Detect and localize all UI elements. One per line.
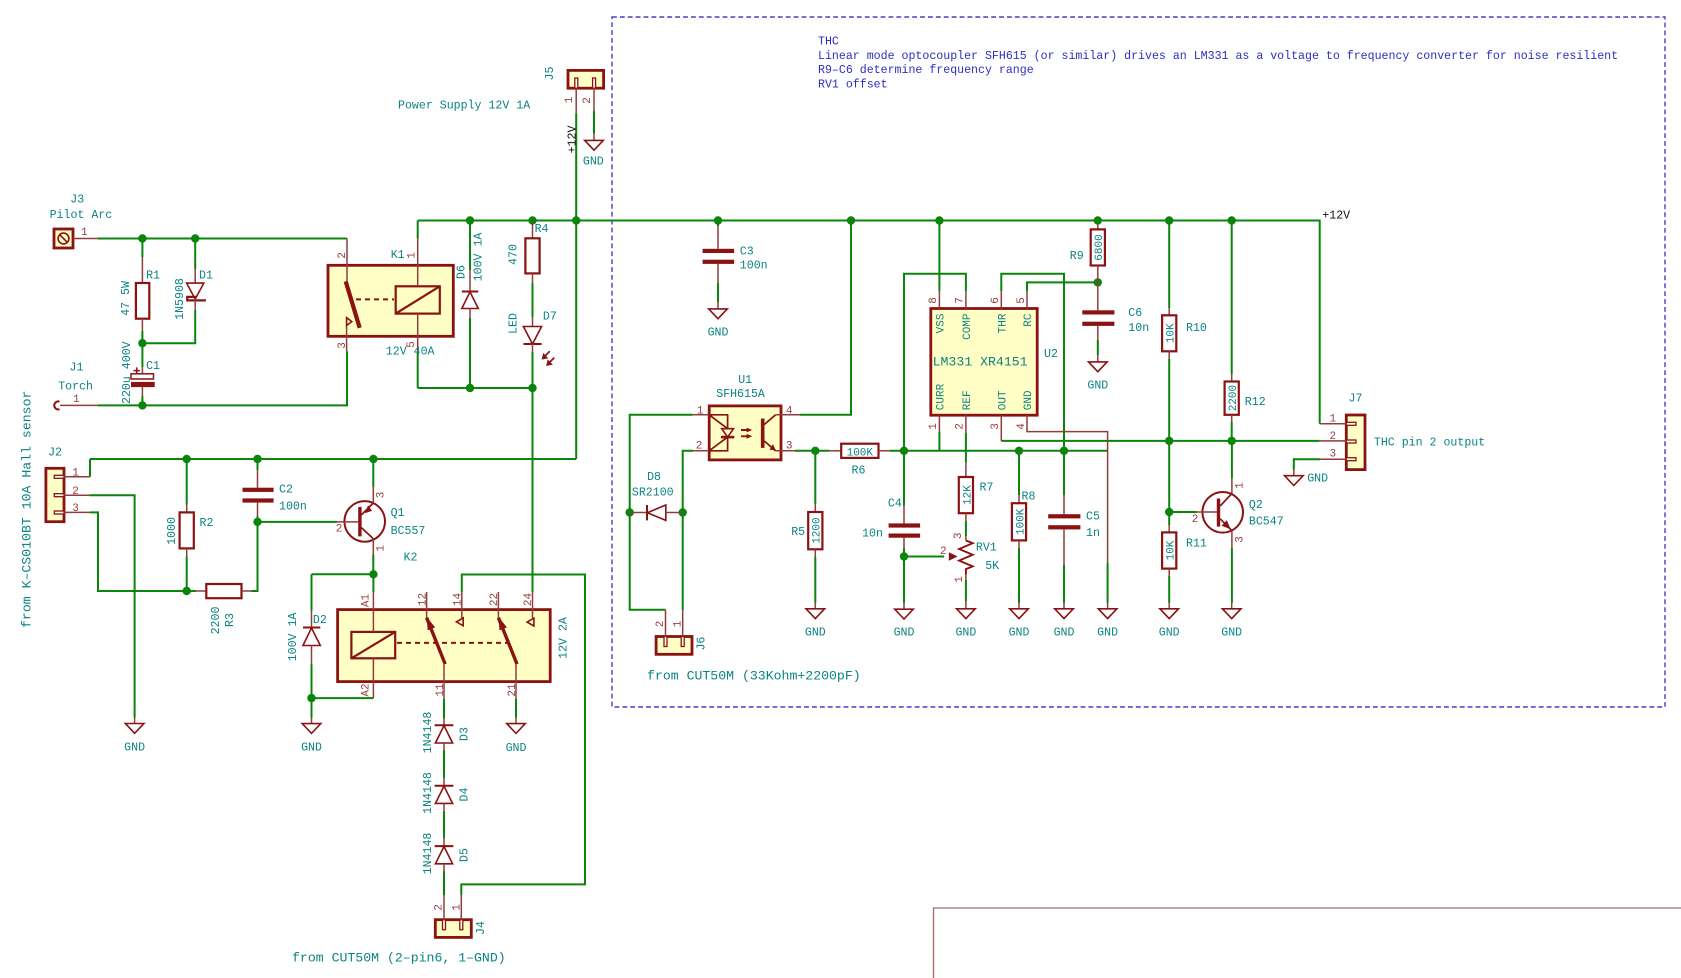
svg-text:2: 2	[434, 904, 446, 911]
svg-text:GND: GND	[1054, 627, 1075, 640]
wire K2 pin11 to D3	[443, 699, 445, 719]
svg-text:1000: 1000	[166, 517, 179, 545]
wire U1 pin3 row	[795, 450, 829, 452]
svg-text:J6: J6	[696, 637, 709, 651]
resistor R8	[1012, 491, 1036, 549]
svg-text:2: 2	[582, 97, 594, 104]
note THC text block	[818, 36, 1618, 92]
svg-text:2: 2	[955, 423, 967, 430]
wire A1 drop	[372, 574, 374, 592]
svg-text:4: 4	[1016, 423, 1028, 430]
diode D2	[287, 611, 327, 664]
ground J2 pin2	[124, 718, 145, 755]
wire D1 bottom to node	[142, 310, 195, 343]
sheet title-block frame (partial, bottom right)	[934, 908, 1681, 978]
svg-text:COMP: COMP	[962, 313, 974, 340]
potentiometer RV1 5K	[940, 532, 999, 582]
svg-text:4: 4	[786, 406, 793, 418]
wire Q1 base row	[258, 521, 338, 523]
wire THR loop	[1001, 274, 1064, 451]
resistor R10	[1162, 308, 1207, 359]
wire D7 bottom	[532, 352, 534, 388]
svg-text:THC pin 2 output: THC pin 2 output	[1374, 437, 1485, 450]
svg-text:K1: K1	[391, 249, 405, 262]
svg-text:LM331 XR4151: LM331 XR4151	[933, 354, 1028, 369]
svg-text:1: 1	[72, 468, 79, 480]
capacitor C5 1n	[1048, 495, 1100, 565]
wire RV1 wiper feed	[904, 556, 944, 558]
svg-text:C6: C6	[1128, 307, 1142, 320]
svg-text:GND: GND	[805, 627, 826, 640]
svg-text:from CUT50M (33Kohm+2200pF): from CUT50M (33Kohm+2200pF)	[647, 669, 861, 684]
wire R4 to LED D7	[532, 283, 534, 317]
wire D7 node to K2 pin24	[532, 388, 534, 592]
svg-text:2: 2	[336, 524, 343, 536]
wire Q2 emitter to GND	[1231, 548, 1233, 603]
svg-text:5: 5	[406, 341, 418, 348]
svg-text:R8: R8	[1022, 491, 1036, 504]
wire Q2 base row	[1169, 511, 1197, 513]
svg-text:C4: C4	[888, 498, 902, 511]
svg-text:C2: C2	[279, 484, 293, 497]
wire J5 pin1 +12V drop	[575, 113, 577, 459]
ground Q2	[1221, 603, 1242, 640]
wire C3 top	[717, 221, 719, 227]
wire J2 pin2 to GND	[89, 495, 134, 717]
wire R5 bottom to GND	[814, 557, 816, 603]
ground C4	[894, 603, 915, 640]
svg-text:6: 6	[990, 297, 1002, 304]
svg-text:2: 2	[337, 252, 349, 259]
svg-text:12V 2A: 12V 2A	[558, 617, 571, 659]
svg-text:D5: D5	[459, 848, 472, 862]
capacitor C1 220u 400V	[121, 341, 160, 404]
svg-text:R7: R7	[980, 482, 994, 495]
wire R10 bottom to OUT row	[1168, 359, 1170, 441]
svg-text:GND: GND	[1159, 627, 1180, 640]
svg-text:3: 3	[953, 532, 965, 539]
wire R12 bottom to OUT row	[1231, 422, 1233, 441]
svg-text:1: 1	[81, 227, 88, 239]
svg-text:SFH615A: SFH615A	[716, 388, 765, 401]
svg-text:1: 1	[1330, 413, 1337, 425]
wire U1 pin2 to D8 right column	[683, 451, 693, 513]
wire J2 pin1 riser	[89, 459, 91, 477]
ground RV1	[955, 601, 976, 640]
wire R12 top	[1231, 221, 1233, 375]
wire J2 pin3 to R3 row	[90, 512, 196, 591]
svg-text:3: 3	[375, 492, 387, 499]
svg-text:BC557: BC557	[391, 525, 426, 538]
svg-text:1200: 1200	[812, 517, 824, 543]
wire node to C1	[141, 343, 143, 367]
svg-text:12: 12	[417, 593, 429, 606]
svg-text:2: 2	[72, 486, 79, 498]
svg-text:R5: R5	[791, 526, 805, 539]
svg-text:14: 14	[452, 593, 464, 607]
svg-text:5: 5	[1016, 297, 1028, 304]
svg-text:U2: U2	[1044, 348, 1058, 361]
svg-text:100V 1A: 100V 1A	[287, 613, 300, 662]
connector J3 Pilot Arc	[50, 193, 113, 248]
svg-text:CURR: CURR	[936, 383, 948, 410]
svg-text:12K: 12K	[962, 485, 974, 505]
ground C5	[1054, 603, 1075, 640]
svg-text:R9: R9	[1070, 250, 1084, 263]
svg-text:1N5908: 1N5908	[174, 278, 187, 320]
svg-text:220u 400V: 220u 400V	[121, 341, 134, 404]
svg-text:GND: GND	[1009, 627, 1030, 640]
wire R12 node to Q2 collector	[1231, 441, 1233, 478]
wire D1 top	[194, 239, 196, 270]
resistor R6	[829, 444, 890, 478]
wire D2 bottom to A2 node	[311, 664, 313, 698]
svg-text:GND: GND	[708, 327, 729, 340]
svg-text:U1: U1	[738, 374, 752, 387]
svg-text:+12V: +12V	[1322, 209, 1350, 222]
connector J6	[655, 610, 709, 655]
svg-text:C3: C3	[740, 246, 754, 259]
svg-text:2200: 2200	[1228, 385, 1240, 411]
svg-text:J5: J5	[544, 67, 557, 81]
svg-text:1: 1	[697, 406, 704, 418]
LED D7	[508, 311, 557, 367]
wire RC to R9 node	[1027, 282, 1098, 291]
svg-text:SR2100: SR2100	[632, 487, 674, 500]
wire C4 bottom node	[903, 548, 905, 557]
svg-text:1N4148: 1N4148	[422, 833, 435, 875]
wire C4 column	[903, 451, 905, 506]
wire C1 to torch row	[141, 396, 143, 405]
THC group dashed border	[612, 17, 1665, 707]
wire C3 bottom to GND	[717, 283, 719, 302]
ground D2	[301, 718, 322, 755]
svg-text:10K: 10K	[1166, 323, 1178, 343]
svg-text:1N4148: 1N4148	[422, 772, 435, 814]
transistor Q1 BC557	[336, 487, 426, 554]
ground J7 pin3	[1285, 470, 1329, 486]
wire C2 bottom node	[257, 516, 259, 522]
ground R11	[1159, 603, 1180, 640]
svg-text:5K: 5K	[985, 560, 999, 573]
svg-text:R2: R2	[200, 517, 214, 530]
svg-text:A1: A1	[360, 594, 372, 608]
svg-text:J4: J4	[475, 921, 488, 935]
svg-text:J2: J2	[48, 447, 62, 460]
wire VSS column	[938, 221, 940, 292]
svg-text:100n: 100n	[740, 260, 768, 273]
wire K2 pin14 loop to J4 pin1	[461, 575, 585, 896]
svg-text:Q2: Q2	[1249, 499, 1263, 512]
ground U2 pin4	[1097, 603, 1118, 640]
relay K1	[328, 239, 453, 359]
svg-text:3: 3	[786, 441, 793, 453]
resistor R1	[120, 257, 160, 331]
svg-text:R12: R12	[1245, 396, 1266, 409]
wire R1 bottom to node	[141, 331, 143, 343]
connector J2	[46, 447, 90, 522]
svg-text:+12V: +12V	[567, 126, 580, 154]
svg-text:10K: 10K	[1166, 540, 1178, 560]
wire D6 bottom	[469, 318, 471, 388]
wire A2 row	[312, 697, 374, 699]
resistor R2	[166, 505, 213, 557]
svg-text:R10: R10	[1186, 322, 1207, 335]
svg-text:LED: LED	[508, 313, 521, 334]
svg-text:47 5W: 47 5W	[120, 281, 133, 316]
svg-text:1: 1	[1234, 482, 1246, 489]
svg-text:Power Supply 12V 1A: Power Supply 12V 1A	[398, 100, 530, 113]
wire U1 pin1 to D8 left column	[630, 415, 693, 513]
svg-text:1N4148: 1N4148	[422, 712, 435, 754]
wire RV1 bottom to GND	[965, 580, 967, 601]
resistor R5	[791, 504, 823, 557]
svg-text:2: 2	[1192, 514, 1199, 526]
svg-text:10n: 10n	[862, 528, 883, 541]
wire C4 node to GND	[903, 557, 905, 603]
svg-text:24: 24	[523, 593, 535, 607]
wire C2 top	[257, 459, 259, 470]
svg-text:7: 7	[955, 297, 967, 304]
diode D6	[455, 233, 485, 318]
wire U2 pin1 drop	[938, 432, 940, 451]
wire relay bottom rail	[418, 387, 533, 389]
svg-text:J1: J1	[70, 362, 84, 375]
svg-text:3: 3	[1234, 536, 1246, 543]
ground R5	[805, 603, 826, 640]
svg-text:100n: 100n	[279, 501, 307, 514]
svg-text:RC: RC	[1023, 313, 1035, 327]
wire R8 bottom to GND	[1018, 548, 1020, 603]
svg-text:22: 22	[489, 593, 501, 606]
wire R5 top	[814, 451, 816, 504]
wire R8 top	[1018, 451, 1020, 495]
svg-text:8: 8	[928, 297, 940, 304]
svg-text:1n: 1n	[1086, 527, 1100, 540]
svg-text:GND: GND	[301, 742, 322, 755]
IC U2 LM331 XR4151	[928, 291, 1107, 563]
svg-text:21: 21	[507, 683, 519, 697]
optocoupler U1 SFH615A	[693, 374, 800, 460]
svg-text:GND: GND	[124, 742, 145, 755]
svg-text:D3: D3	[459, 727, 472, 741]
svg-text:GND: GND	[955, 627, 976, 640]
svg-text:2: 2	[940, 546, 947, 558]
svg-text:R4: R4	[535, 223, 549, 236]
wire C6 bottom to GND	[1097, 340, 1099, 355]
resistor R12	[1225, 374, 1266, 422]
diode D4 1N4148	[422, 772, 472, 814]
wire R3 right to C2 node	[252, 522, 258, 591]
svg-text:470: 470	[508, 244, 521, 265]
diode D5 1N4148	[422, 833, 472, 875]
svg-text:GND: GND	[894, 627, 915, 640]
wire R10 top	[1168, 221, 1170, 309]
wire J3 row	[98, 238, 347, 240]
ground J5	[583, 134, 604, 169]
svg-text:D4: D4	[459, 788, 472, 802]
svg-text:J3: J3	[70, 193, 84, 206]
relay K2	[338, 552, 571, 699]
connector J4	[434, 895, 489, 937]
wire K1 pin1 to +12V rail	[417, 221, 419, 239]
svg-text:10n: 10n	[1128, 322, 1149, 335]
svg-text:THR: THR	[998, 313, 1010, 333]
power label +12V right	[1322, 209, 1350, 222]
wire R11 bottom to GND	[1168, 576, 1170, 603]
svg-text:RV1 offset: RV1 offset	[818, 79, 888, 92]
wire R6 right row	[890, 450, 1108, 452]
wire D8 left to J6 pin2	[630, 513, 666, 610]
svg-text:VSS: VSS	[936, 313, 948, 333]
wire C5 bottom to GND	[1063, 565, 1065, 603]
wire U1 pin4 column	[800, 221, 851, 415]
svg-text:Q1: Q1	[391, 507, 405, 520]
wire Q1 collector	[372, 459, 374, 487]
ground C6	[1087, 355, 1108, 393]
svg-text:2: 2	[655, 621, 667, 628]
label from CUT50M J4	[292, 951, 506, 966]
wire D8 right to J6 pin1	[682, 513, 684, 611]
svg-text:3: 3	[72, 503, 79, 515]
svg-text:Torch: Torch	[58, 381, 93, 394]
wire K1 pin5 down	[417, 351, 419, 388]
wire +12V rail	[418, 221, 1320, 424]
svg-text:from CUT50M (2–pin6, 1–GND): from CUT50M (2–pin6, 1–GND)	[292, 951, 506, 966]
svg-text:Pilot Arc: Pilot Arc	[50, 209, 113, 222]
wire D4-D5 link	[443, 811, 445, 838]
svg-text:R11: R11	[1186, 538, 1207, 551]
wire J2 row	[90, 458, 576, 460]
svg-text:1: 1	[451, 904, 463, 911]
svg-text:from K–CS010BT 10A Hall sensor: from K–CS010BT 10A Hall sensor	[20, 391, 35, 628]
svg-text:J7: J7	[1349, 393, 1363, 406]
svg-text:1: 1	[375, 545, 387, 552]
svg-text:GND: GND	[583, 156, 604, 169]
wire R2 bottom	[186, 557, 188, 592]
svg-text:THC: THC	[818, 36, 839, 49]
svg-text:D7: D7	[543, 311, 557, 324]
ground C3	[708, 302, 729, 340]
wire D3-D4 link	[443, 750, 445, 778]
wire R2 top	[186, 459, 188, 505]
svg-text:REF: REF	[962, 390, 974, 410]
svg-text:1: 1	[954, 576, 966, 583]
wire J5 pin2 to GND	[593, 111, 595, 134]
diode D3 1N4148	[422, 712, 472, 754]
diode D1 1N5908	[174, 269, 213, 320]
svg-text:A2: A2	[360, 683, 372, 696]
wire A1 node row	[312, 573, 374, 575]
label from CUT50M J6	[647, 669, 861, 684]
svg-text:K2: K2	[404, 552, 418, 565]
wire D2 node to GND	[311, 698, 313, 717]
svg-text:2: 2	[696, 441, 703, 453]
wire R9 top	[1097, 222, 1099, 230]
connector J7	[1320, 393, 1486, 470]
svg-text:R6: R6	[852, 465, 866, 478]
svg-text:1: 1	[407, 252, 419, 259]
svg-text:100V 1A: 100V 1A	[473, 233, 486, 282]
svg-text:1: 1	[673, 620, 685, 627]
capacitor C6 10n	[1082, 282, 1149, 340]
wire D5 to J4 pin2	[443, 871, 445, 895]
resistor R9	[1070, 229, 1106, 282]
svg-text:C5: C5	[1086, 511, 1100, 524]
wire K2 pin21 to GND	[515, 699, 517, 718]
wire R1 top	[141, 239, 143, 258]
svg-text:2: 2	[1330, 431, 1337, 443]
wire Q2 base node to R11	[1168, 512, 1170, 525]
svg-text:1: 1	[928, 423, 940, 430]
svg-text:1: 1	[564, 96, 576, 103]
capacitor C4 10n	[862, 498, 920, 549]
transistor Q2 BC547	[1192, 478, 1284, 548]
resistor R7	[959, 462, 994, 521]
svg-text:D2: D2	[313, 614, 327, 627]
connector J5 power in	[398, 67, 604, 154]
wire torch row to K1 pin3	[98, 351, 347, 405]
svg-text:Linear mode optocoupler SFH615: Linear mode optocoupler SFH615 (or simil…	[818, 50, 1618, 63]
svg-text:3: 3	[990, 423, 1002, 430]
ground K2 pin21	[506, 718, 527, 756]
ground R8	[1009, 603, 1030, 640]
wire Q1 emitter to A1 node	[372, 554, 374, 574]
capacitor C3 100n	[703, 226, 768, 283]
svg-text:100K: 100K	[1015, 508, 1027, 535]
wire COMP loop	[904, 274, 966, 451]
svg-text:GND: GND	[1097, 627, 1118, 640]
svg-text:D8: D8	[647, 471, 661, 484]
svg-text:BC547: BC547	[1249, 515, 1284, 528]
capacitor C2 100n	[243, 470, 307, 516]
diode D8 SR2100	[630, 471, 683, 520]
wire C5 top	[1063, 451, 1065, 495]
svg-text:GND: GND	[1307, 473, 1328, 486]
svg-text:6800: 6800	[1094, 234, 1106, 260]
wire R10 node to Q2 base node	[1168, 441, 1170, 512]
svg-text:3: 3	[1330, 448, 1337, 460]
connector J1 Torch	[54, 362, 98, 410]
resistor R4	[508, 222, 549, 284]
svg-text:2200: 2200	[210, 607, 223, 635]
svg-text:R3: R3	[224, 613, 237, 627]
wire U2 pin4 gnd drop	[1107, 563, 1109, 603]
resistor R11	[1162, 525, 1207, 576]
svg-text:1: 1	[73, 394, 80, 406]
svg-text:D1: D1	[199, 270, 213, 283]
svg-text:100K: 100K	[847, 447, 874, 459]
wire U2 pin2 to R7	[965, 433, 967, 462]
svg-text:GND: GND	[1023, 390, 1035, 410]
svg-text:GND: GND	[506, 742, 527, 755]
wire U2 pin3 OUT row	[1001, 440, 1319, 442]
svg-text:GND: GND	[1221, 627, 1242, 640]
wire D6 top	[469, 221, 471, 271]
wire J7 pin3 to GND	[1294, 459, 1320, 469]
wire R7 to RV1	[965, 521, 967, 536]
svg-text:R1: R1	[146, 270, 160, 283]
svg-text:RV1: RV1	[976, 542, 997, 555]
svg-text:OUT: OUT	[998, 390, 1010, 410]
svg-text:C1: C1	[146, 360, 160, 373]
svg-text:11: 11	[435, 683, 447, 697]
svg-text:D6: D6	[455, 265, 468, 279]
wire D2 top	[311, 574, 313, 611]
svg-text:GND: GND	[1087, 380, 1108, 393]
svg-text:R9–C6 determine frequency rang: R9–C6 determine frequency range	[818, 64, 1034, 77]
svg-text:3: 3	[337, 342, 349, 349]
